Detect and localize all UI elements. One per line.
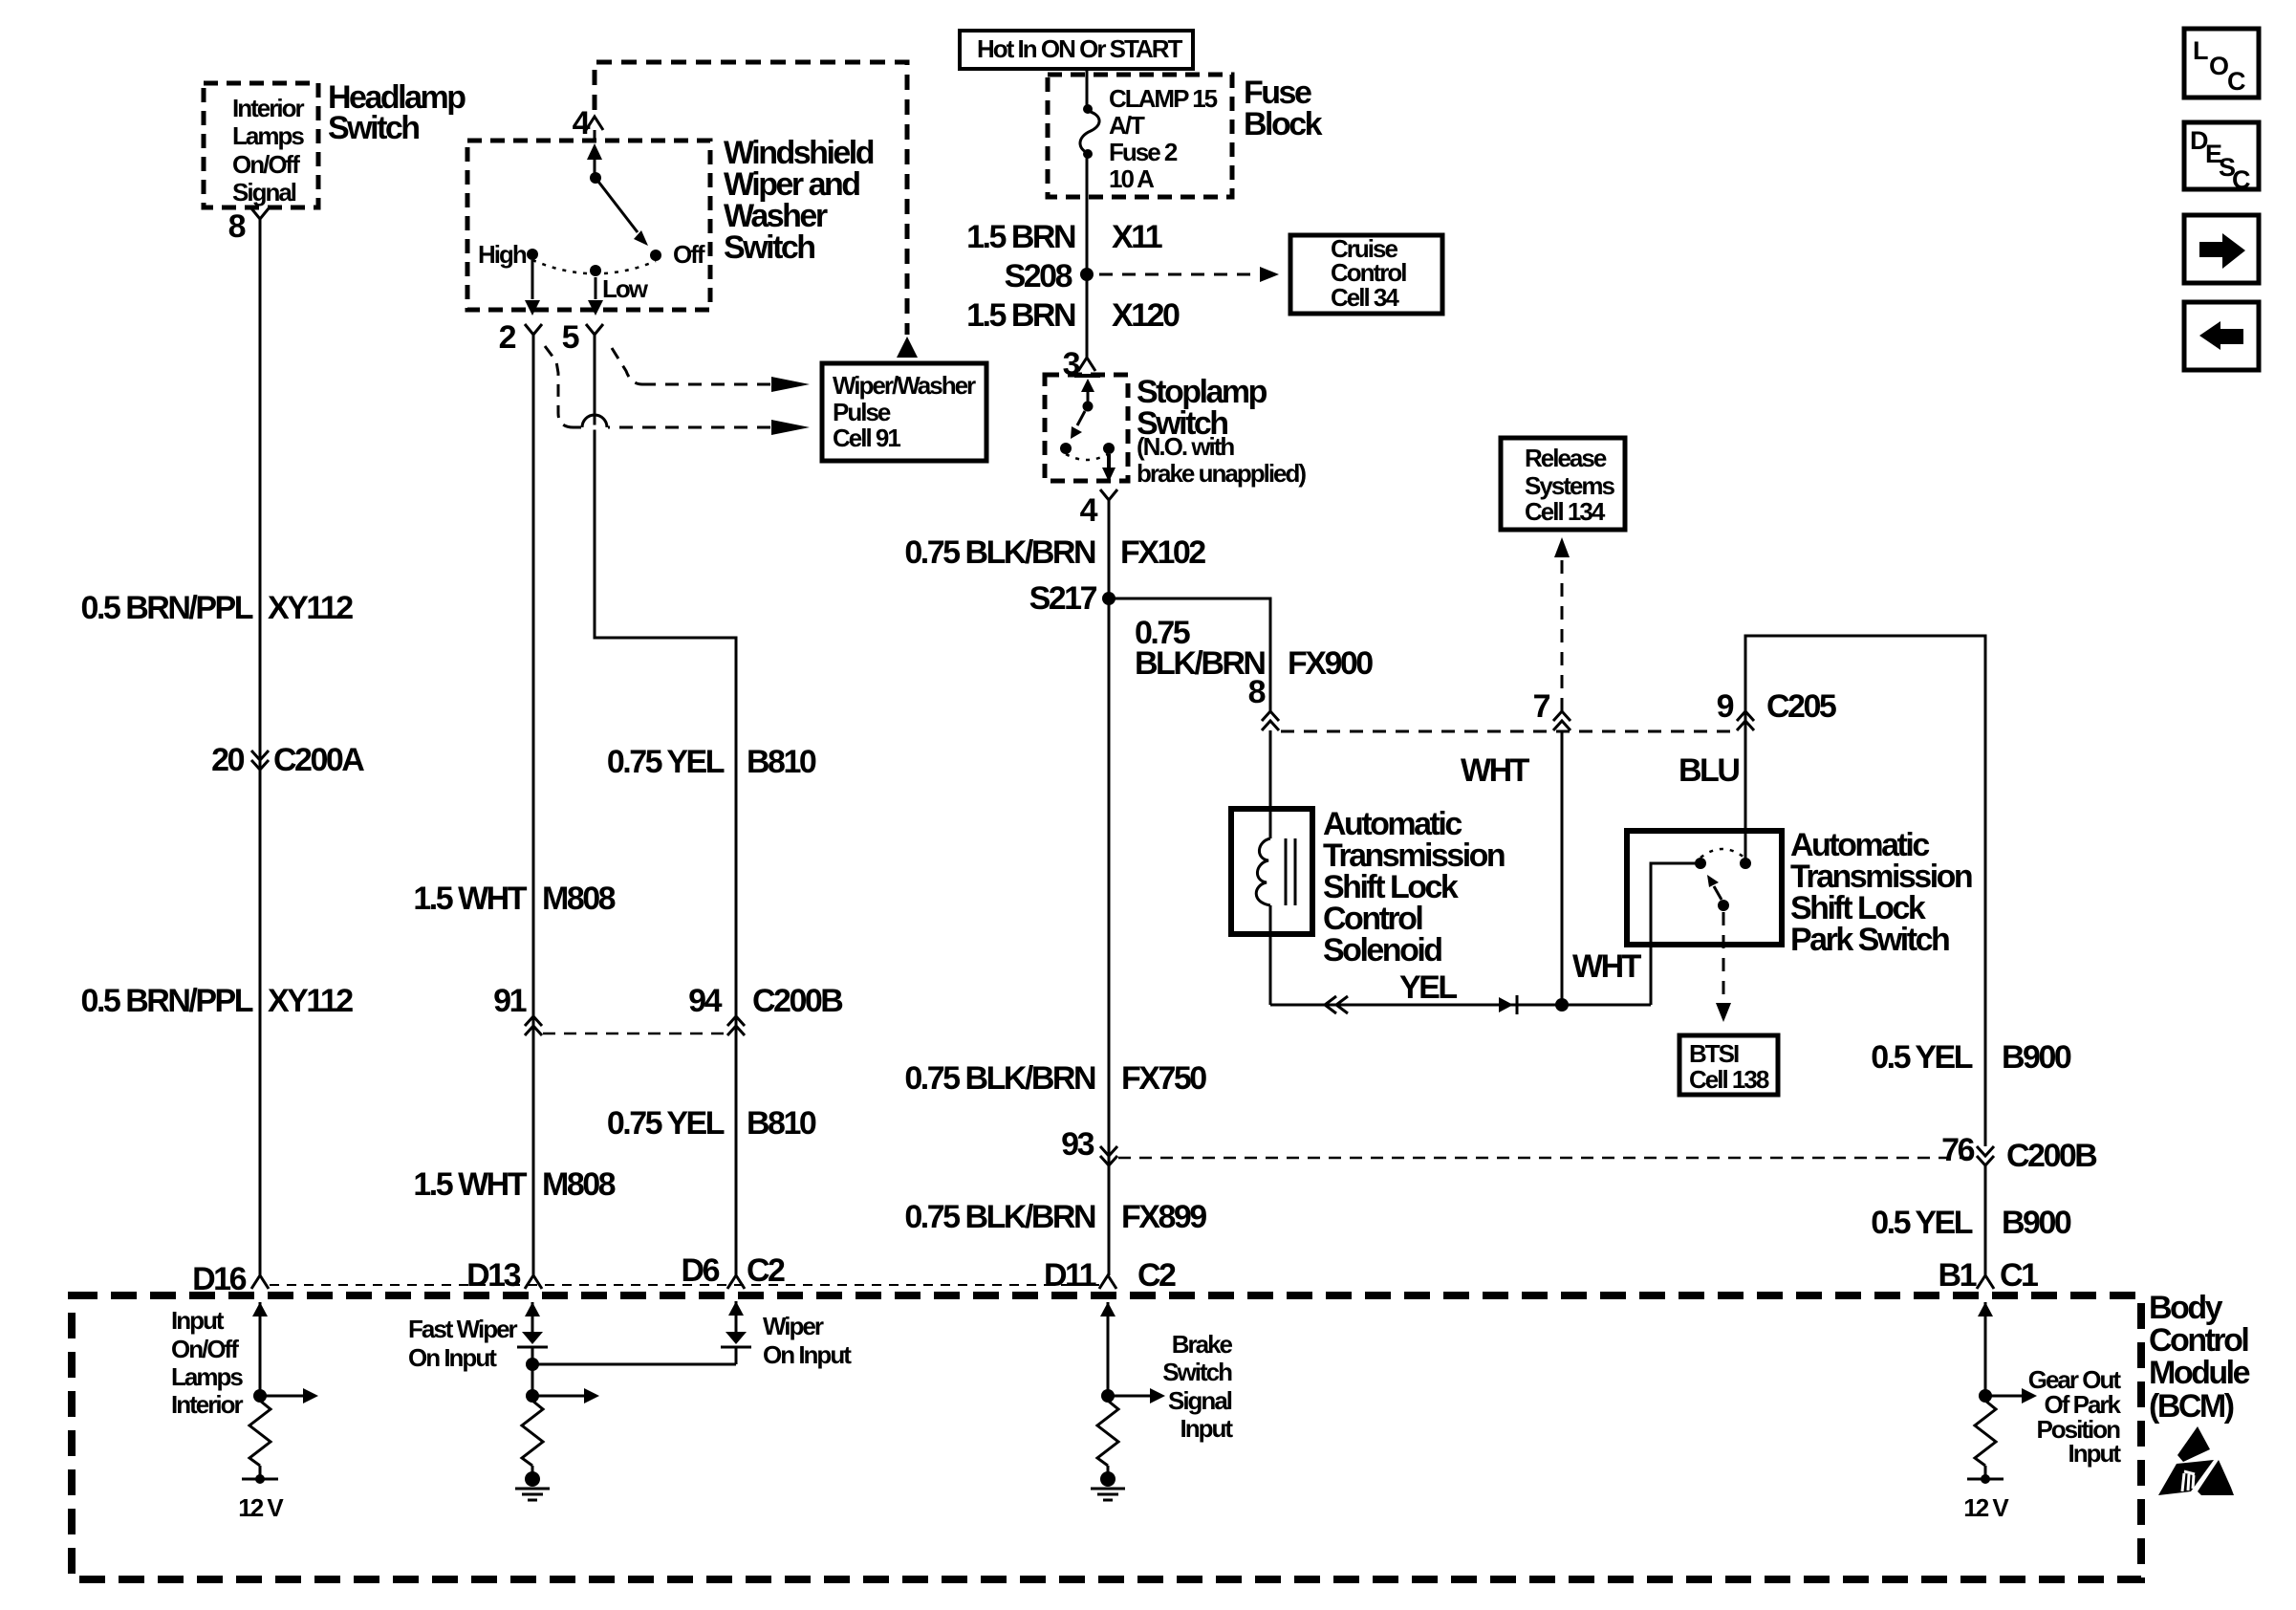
svg-text:Wiper/Washer: Wiper/Washer <box>833 371 976 400</box>
pin 3 of stoplamp switch <box>1063 346 1095 382</box>
svg-text:Off: Off <box>673 240 705 269</box>
fuse block label <box>1244 75 1323 142</box>
label 1.5 WHT M808 (lower) <box>413 1166 615 1203</box>
dashed arrow up to release systems <box>1554 537 1570 711</box>
splice S208 <box>1005 258 1094 294</box>
svg-text:C: C <box>2227 67 2245 96</box>
svg-text:CLAMP 15: CLAMP 15 <box>1109 84 1218 113</box>
BCM D11 labels <box>1162 1330 1233 1443</box>
BCM B1 pull-up resistor <box>1975 1401 1996 1466</box>
pin 4 of wiper switch <box>573 105 603 141</box>
svg-text:94: 94 <box>688 983 722 1019</box>
dashed arrow to BTSI <box>1716 912 1731 1022</box>
svg-text:Cell 134: Cell 134 <box>1525 497 1606 526</box>
BCM connector dashed line <box>270 1284 1099 1286</box>
BCM D16 input arrow <box>252 1302 268 1396</box>
park switch: right contact dot <box>1740 858 1751 869</box>
svg-text:20: 20 <box>211 742 244 778</box>
svg-text:1.5 BRN: 1.5 BRN <box>966 297 1075 334</box>
svg-text:C205: C205 <box>1766 688 1836 725</box>
wire YEL horizontal <box>1270 1004 1651 1007</box>
BCM D16 pull-up resistor <box>249 1401 271 1466</box>
BCM D13 input arrow <box>525 1302 540 1332</box>
connector C205 pin 7 <box>1533 688 1570 730</box>
BCM D13 pull-down resistor <box>522 1401 543 1466</box>
svg-text:S217: S217 <box>1029 580 1097 617</box>
svg-text:Switch: Switch <box>724 229 814 266</box>
BCM D13-D6 link junction <box>526 1358 539 1371</box>
svg-text:Module: Module <box>2149 1355 2250 1391</box>
svg-text:B1: B1 <box>1939 1257 1977 1294</box>
wire into fuse <box>1086 69 1089 111</box>
svg-text:5: 5 <box>562 319 579 356</box>
BCM D13 labels <box>408 1315 518 1372</box>
svg-text:Switch: Switch <box>328 110 419 146</box>
label 0.5 YEL B900 (upper) <box>1871 1039 2071 1076</box>
cruise control cell 34 box <box>1290 234 1442 314</box>
svg-text:YEL: YEL <box>1399 969 1457 1006</box>
label 0.75 BLK/BRN FX899 <box>904 1199 1206 1235</box>
svg-text:A/T: A/T <box>1109 111 1145 140</box>
wire BLU into park switch <box>1744 730 1747 863</box>
body control module box (dashed) <box>72 1295 2141 1579</box>
BCM B1 input arrow <box>1978 1302 1993 1396</box>
right arrow icon box <box>2184 215 2259 283</box>
BCM D16 12V terminal <box>238 1466 284 1522</box>
label 0.75 YEL B810 (lower) <box>607 1105 816 1142</box>
BCM B1 branch arrow <box>1985 1388 2037 1403</box>
LOC icon box <box>2184 29 2259 98</box>
junction of YEL and WHT <box>1555 998 1569 1012</box>
wiper switch: Low output wire with arrow <box>588 277 603 315</box>
wire: interior lamps signal (0.5 BRN/PPL XY112) <box>259 225 262 1275</box>
stoplamp switch box (dashed) <box>1045 375 1128 481</box>
svg-text:Cell 138: Cell 138 <box>1689 1065 1769 1094</box>
BCM D11 input arrow <box>1100 1302 1116 1396</box>
svg-text:Body: Body <box>2149 1290 2223 1326</box>
label 0.75 YEL B810 (upper) <box>607 744 816 780</box>
svg-text:FX900: FX900 <box>1288 645 1373 682</box>
stoplamp switch: output arrow <box>1102 454 1116 482</box>
svg-text:7: 7 <box>1533 688 1550 725</box>
park switch label <box>1790 827 1972 958</box>
svg-text:C200B: C200B <box>2006 1138 2097 1174</box>
label 0.5 BRN/PPL XY112 (lower) <box>81 983 354 1019</box>
wire S217 to solenoid (FX900) <box>1109 598 1270 711</box>
wire solenoid to YEL <box>1269 905 1272 1005</box>
svg-text:brake unapplied): brake unapplied) <box>1137 459 1306 488</box>
svg-text:O: O <box>2209 52 2228 80</box>
svg-text:C200B: C200B <box>752 983 843 1019</box>
interior lamps text <box>232 94 304 207</box>
label 1.5 WHT M808 (upper) <box>413 881 615 917</box>
svg-text:BLK/BRN: BLK/BRN <box>1135 645 1265 682</box>
svg-text:(N.O. with: (N.O. with <box>1137 432 1234 461</box>
label 0.5 YEL B900 (lower) <box>1871 1205 2071 1241</box>
headlamp switch: Interior Lamps On/Off Signal box (dashed) <box>204 83 318 207</box>
svg-text:Interior: Interior <box>232 94 304 122</box>
wire hop over dashed line on B810 wire <box>581 415 608 427</box>
YEL double chevron <box>1325 996 1348 1013</box>
pin D16 of BCM <box>192 1261 269 1297</box>
svg-text:D11: D11 <box>1044 1257 1096 1294</box>
svg-text:B810: B810 <box>747 744 816 780</box>
svg-text:0.75 YEL: 0.75 YEL <box>607 744 725 780</box>
svg-text:X120: X120 <box>1112 297 1180 334</box>
svg-text:2: 2 <box>499 319 516 356</box>
svg-text:1.5 BRN: 1.5 BRN <box>966 219 1075 255</box>
body control module label <box>2149 1290 2250 1425</box>
wire: wiper low B810 with jog <box>595 340 736 1275</box>
stoplamp switch: right contact dot <box>1103 443 1115 454</box>
wiper switch: High output wire with arrow <box>525 260 540 315</box>
park switch: left contact dot <box>1695 858 1706 869</box>
wire BLU / C205 pin 9 up and over <box>1745 636 1985 1146</box>
label 1.5 BRN X11 <box>966 219 1162 255</box>
svg-text:XY112: XY112 <box>268 590 353 626</box>
DESC icon box <box>2184 122 2259 194</box>
wire: fast wiper (1.5 WHT M808) <box>532 340 535 1275</box>
svg-text:0.5 BRN/PPL: 0.5 BRN/PPL <box>81 590 253 626</box>
label 0.75 BLK/BRN FX750 <box>904 1060 1206 1097</box>
pin D6 C2 of BCM <box>682 1252 786 1289</box>
BCM B1 junction <box>1979 1389 1992 1403</box>
BTSI cell 138 box <box>1679 1035 1778 1095</box>
wiper switch: Low contact dot <box>590 265 601 276</box>
connector C205 pin 9 <box>1717 688 1836 730</box>
stoplamp switch: lever with arrow <box>1071 411 1085 439</box>
svg-text:9: 9 <box>1717 688 1734 725</box>
svg-text:C: C <box>2232 165 2250 194</box>
svg-text:Wiper: Wiper <box>763 1312 824 1340</box>
wire B900 lower <box>1984 1165 1987 1275</box>
solenoid box <box>1231 809 1312 934</box>
label BLU <box>1679 752 1739 789</box>
ESD symbol <box>2158 1426 2234 1495</box>
BCM D16 junction <box>253 1389 267 1403</box>
pin D11 C2 of BCM <box>1044 1257 1176 1294</box>
svg-text:0.5 YEL: 0.5 YEL <box>1871 1039 1972 1076</box>
label 0.75 BLK/BRN FX900 <box>1135 615 1373 682</box>
solenoid label <box>1323 806 1505 968</box>
svg-text:Switch: Switch <box>1162 1358 1232 1386</box>
svg-text:Park Switch: Park Switch <box>1790 922 1949 958</box>
svg-text:12 V: 12 V <box>238 1493 284 1522</box>
svg-text:76: 76 <box>1941 1132 1974 1168</box>
stoplamp switch: dotted arc <box>1066 454 1108 460</box>
svg-text:FX102: FX102 <box>1120 534 1205 571</box>
BCM D6 labels <box>763 1312 852 1369</box>
pin 4 of stoplamp switch <box>1080 490 1117 529</box>
park switch box <box>1627 831 1782 945</box>
svg-text:On/Off: On/Off <box>171 1335 239 1363</box>
svg-text:Fast Wiper: Fast Wiper <box>408 1315 518 1343</box>
BCM D11 ground <box>1091 1466 1125 1500</box>
svg-text:On/Off: On/Off <box>232 150 300 179</box>
svg-text:Input: Input <box>1180 1414 1233 1443</box>
BCM D13 junction <box>526 1389 539 1403</box>
wire stoplamp to S217 <box>1108 506 1111 598</box>
svg-text:XY112: XY112 <box>268 983 353 1019</box>
BCM D13 ground <box>515 1466 550 1500</box>
headlamp switch label <box>328 79 466 146</box>
wire: brake switch signal down to BCM <box>1108 598 1111 1275</box>
pin 2 of wiper switch <box>499 319 542 356</box>
svg-text:Systems: Systems <box>1525 471 1614 500</box>
left arrow icon box <box>2184 302 2259 370</box>
svg-text:BLU: BLU <box>1679 752 1739 789</box>
svg-text:D6: D6 <box>682 1252 720 1289</box>
park switch: dotted arc <box>1700 849 1744 858</box>
splice S217 <box>1029 580 1116 617</box>
svg-text:10 A: 10 A <box>1109 164 1155 193</box>
svg-text:Signal: Signal <box>1168 1386 1232 1415</box>
stoplamp switch labels <box>1137 374 1306 488</box>
BCM B1 12V terminal <box>1963 1466 2009 1522</box>
svg-text:Pulse: Pulse <box>833 398 891 426</box>
svg-text:Input: Input <box>171 1306 225 1335</box>
svg-text:C1: C1 <box>2000 1257 2038 1294</box>
svg-text:Signal: Signal <box>232 178 296 207</box>
svg-text:B900: B900 <box>2002 1205 2071 1241</box>
svg-text:93: 93 <box>1061 1126 1094 1163</box>
wiper switch: pin4 wire with up arrow <box>587 130 602 178</box>
svg-text:0.5 YEL: 0.5 YEL <box>1871 1205 1972 1241</box>
connector C200A pin 20 <box>211 742 364 778</box>
svg-text:M808: M808 <box>542 881 616 917</box>
label Low <box>602 274 649 303</box>
dashed arrow to cruise control <box>1099 267 1279 282</box>
svg-text:WHT: WHT <box>1461 752 1530 789</box>
connector C200B pins 91/94 <box>493 983 843 1035</box>
wiper/washer pulse text <box>833 371 976 452</box>
fuse CLAMP 15 A/T Fuse 2 10 A <box>1080 84 1218 193</box>
label High <box>478 240 527 269</box>
BCM D6 input arrow <box>728 1301 744 1332</box>
svg-text:BTSI: BTSI <box>1689 1039 1739 1068</box>
BCM D13 branch arrow <box>532 1388 599 1403</box>
svg-text:0.75 BLK/BRN: 0.75 BLK/BRN <box>904 534 1095 571</box>
dashed tap from pin 2 wire <box>545 346 574 427</box>
label 0.5 BRN/PPL XY112 (upper) <box>81 590 354 626</box>
dashed arrow to wiper/washer pulse (lower) <box>574 420 810 435</box>
stoplamp switch: fixed contact arrow <box>1074 376 1100 402</box>
dashed route from pin 4 to wiper/washer pulse <box>595 62 918 358</box>
dashed arrow to wiper/washer pulse (upper) <box>642 377 810 392</box>
svg-text:M808: M808 <box>542 1166 616 1203</box>
label WHT (upper) <box>1461 752 1530 789</box>
wiper/washer pulse cell 91 box <box>822 363 986 461</box>
svg-text:Block: Block <box>1244 106 1323 142</box>
wiper switch: High contact dot <box>527 249 538 260</box>
svg-text:C2: C2 <box>1137 1257 1176 1294</box>
Hot In ON Or START box <box>960 31 1193 69</box>
svg-text:91: 91 <box>493 983 526 1019</box>
svg-text:(BCM): (BCM) <box>2149 1388 2234 1425</box>
fuse block box (dashed) <box>1048 75 1232 197</box>
stoplamp switch: left contact dot <box>1060 443 1072 454</box>
connector C205 dashed line <box>1281 730 1736 733</box>
svg-text:C200A: C200A <box>273 742 364 778</box>
solenoid coil <box>1256 838 1270 905</box>
wire solenoid feed <box>1269 730 1272 838</box>
svg-text:4: 4 <box>1080 492 1098 529</box>
label WHT (lower) <box>1572 948 1642 985</box>
svg-text:Fuse 2: Fuse 2 <box>1109 138 1178 166</box>
svg-text:Brake: Brake <box>1172 1330 1233 1359</box>
svg-text:12 V: 12 V <box>1963 1493 2009 1522</box>
label YEL <box>1399 969 1457 1006</box>
svg-text:Lamps: Lamps <box>232 121 304 150</box>
BCM D11 branch arrow <box>1108 1388 1165 1403</box>
wiper switch: pivot contact dot <box>590 172 601 184</box>
svg-text:8: 8 <box>1248 674 1266 710</box>
svg-text:On Input: On Input <box>763 1340 852 1369</box>
svg-text:0.75 BLK/BRN: 0.75 BLK/BRN <box>904 1060 1095 1097</box>
BCM D13 input bar symbol <box>517 1332 548 1396</box>
BCM D11 pull-down resistor <box>1097 1401 1118 1466</box>
BCM D6 input bar symbol <box>721 1332 751 1364</box>
label 0.75 BLK/BRN FX102 <box>904 534 1205 571</box>
svg-text:Input: Input <box>2068 1439 2121 1468</box>
svg-text:Low: Low <box>602 274 649 303</box>
pin 5 of wiper switch <box>562 319 603 356</box>
pin 8 of headlamp switch <box>228 208 269 245</box>
svg-text:Lamps: Lamps <box>171 1362 243 1391</box>
svg-text:B810: B810 <box>747 1105 816 1142</box>
svg-text:On Input: On Input <box>408 1343 497 1372</box>
BCM link wire D13 to D6 <box>532 1363 736 1366</box>
windshield wiper switch box (dashed) <box>467 141 710 310</box>
park switch: internal wire to WHT <box>1651 863 1700 1005</box>
YEL arrow-bar symbol <box>1499 995 1517 1014</box>
stoplamp switch: pivot dot <box>1083 402 1094 412</box>
pin B1 C1 of BCM <box>1939 1257 2039 1294</box>
svg-text:C2: C2 <box>747 1252 785 1289</box>
svg-text:1.5 WHT: 1.5 WHT <box>413 1166 527 1203</box>
svg-text:0.5 BRN/PPL: 0.5 BRN/PPL <box>81 983 253 1019</box>
label Off <box>673 240 705 269</box>
dashed tap from pin 5 wire <box>612 348 642 384</box>
svg-text:FX899: FX899 <box>1121 1199 1206 1235</box>
pin D13 of BCM <box>466 1257 542 1294</box>
BCM D11 junction <box>1101 1389 1115 1403</box>
svg-text:Cell 34: Cell 34 <box>1331 283 1399 312</box>
svg-text:Solenoid: Solenoid <box>1323 932 1441 968</box>
release systems cell 134 box <box>1501 438 1625 530</box>
park switch: lever dot <box>1718 900 1729 911</box>
svg-text:X11: X11 <box>1112 219 1162 255</box>
svg-text:8: 8 <box>228 208 246 245</box>
svg-text:Hot In ON Or START: Hot In ON Or START <box>977 34 1183 63</box>
svg-text:1.5 WHT: 1.5 WHT <box>413 881 527 917</box>
BCM D16 branch arrow <box>260 1388 318 1403</box>
svg-text:4: 4 <box>573 105 591 141</box>
svg-text:S208: S208 <box>1005 258 1072 294</box>
wire fuse to stoplamp switch <box>1086 154 1089 358</box>
svg-text:WHT: WHT <box>1572 948 1642 985</box>
wire WHT down <box>1561 731 1564 1005</box>
solenoid core bars <box>1286 838 1295 905</box>
svg-text:L: L <box>2193 36 2208 65</box>
svg-text:FX750: FX750 <box>1121 1060 1206 1097</box>
windshield wiper switch label <box>724 135 874 266</box>
svg-text:0.75 BLK/BRN: 0.75 BLK/BRN <box>904 1199 1095 1235</box>
svg-text:Cell 91: Cell 91 <box>833 424 900 452</box>
connector C205 pin 8 <box>1248 674 1279 730</box>
svg-text:High: High <box>478 240 527 269</box>
connector C200B pins 93/76 <box>1061 1126 2097 1174</box>
svg-text:0.75 YEL: 0.75 YEL <box>607 1105 725 1142</box>
svg-text:B900: B900 <box>2002 1039 2071 1076</box>
park switch: lever with arrow <box>1707 875 1722 900</box>
svg-text:D13: D13 <box>466 1257 520 1294</box>
svg-text:Interior: Interior <box>171 1390 243 1419</box>
label 1.5 BRN X120 <box>966 297 1180 334</box>
svg-text:Release: Release <box>1525 444 1607 472</box>
BCM B1 labels <box>2028 1365 2122 1468</box>
wiper switch: Off contact dot <box>650 250 661 261</box>
wiper switch: lever arm to Off <box>596 178 648 246</box>
svg-text:Control: Control <box>2149 1322 2248 1359</box>
BCM D16 labels <box>171 1306 243 1419</box>
wiper switch: dotted travel arc <box>532 260 656 273</box>
